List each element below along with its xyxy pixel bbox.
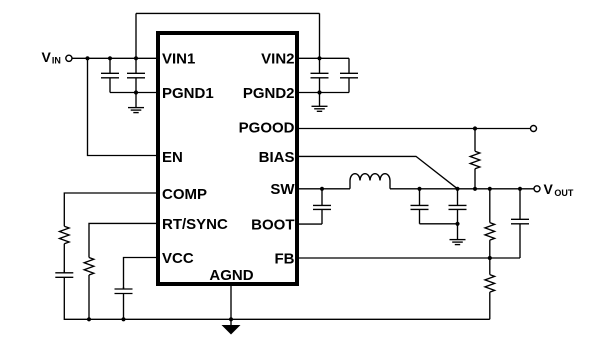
svg-text:PGOOD: PGOOD [239, 120, 295, 137]
svg-text:SW: SW [270, 181, 295, 198]
svg-text:V: V [544, 181, 554, 197]
svg-text:IN: IN [52, 56, 61, 66]
svg-text:PGND1: PGND1 [162, 85, 214, 102]
svg-text:EN: EN [162, 149, 183, 166]
svg-text:VIN1: VIN1 [162, 51, 195, 68]
svg-text:COMP: COMP [162, 186, 207, 203]
svg-text:RT/SYNC: RT/SYNC [162, 216, 228, 233]
svg-text:PGND2: PGND2 [243, 85, 295, 102]
svg-text:VCC: VCC [162, 250, 194, 267]
svg-text:VIN2: VIN2 [261, 51, 294, 68]
svg-text:BIAS: BIAS [259, 149, 295, 166]
svg-text:FB: FB [275, 250, 295, 267]
svg-text:BOOT: BOOT [251, 217, 294, 234]
svg-text:V: V [42, 49, 52, 65]
svg-text:AGND: AGND [209, 267, 253, 284]
svg-text:OUT: OUT [554, 188, 574, 198]
